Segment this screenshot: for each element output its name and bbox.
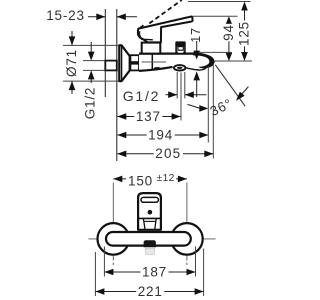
raised lever dashed line — [149, 0, 182, 23]
spout underside line — [185, 67, 207, 70]
spout shadow below bar — [145, 249, 155, 255]
aerator — [174, 65, 186, 70]
G1/2 label (horizontal) — [123, 88, 161, 104]
escutcheon flange cone — [119, 45, 129, 81]
svg-text:15-23: 15-23 — [46, 8, 85, 23]
svg-text:221: 221 — [138, 284, 163, 299]
dimension O71 flange diameter — [64, 31, 79, 94]
rear fitting plane line — [104, 9, 106, 97]
reference line lever top level — [193, 15, 238, 17]
svg-text:137: 137 — [136, 109, 161, 124]
reference line body top level — [199, 51, 232, 53]
aerator extension lines — [176, 72, 178, 99]
dimension 17 (spout drop) — [189, 27, 203, 97]
svg-text:G1/2: G1/2 — [123, 88, 161, 104]
36 degree arc arrowhead — [236, 87, 248, 101]
extension lines for 187 — [103, 247, 105, 277]
dimension 194 — [117, 127, 208, 142]
body centerline — [142, 61, 167, 63]
dimension 221 — [95, 284, 203, 299]
dimension 94 — [221, 16, 236, 61]
front view horizontal centerline right — [170, 238, 216, 240]
connection nut — [130, 55, 139, 62]
handle divider line — [139, 217, 161, 219]
right escutcheon circle — [171, 223, 203, 255]
spout beak (thick curve) — [193, 52, 215, 68]
underside screw bump — [154, 68, 160, 70]
svg-text:G1/2: G1/2 — [82, 87, 97, 119]
spout front extension line (205) — [212, 64, 214, 159]
36 degree leader arrow — [188, 104, 209, 111]
diverter knob (side view) — [175, 41, 185, 53]
lever handle — [138, 17, 193, 43]
dimension 15-23 (wall adjustment) — [46, 8, 137, 23]
svg-text:94: 94 — [221, 24, 236, 41]
svg-text:194: 194 — [148, 127, 173, 142]
handle neck lines — [143, 219, 145, 230]
reference line spout tip level — [214, 60, 252, 62]
right connection vertical centerline — [186, 183, 188, 259]
svg-text:205: 205 — [155, 146, 181, 161]
aerator width mini dimension — [166, 91, 207, 98]
svg-text:±12: ±12 — [157, 173, 175, 184]
left escutcheon circle — [98, 223, 130, 255]
G1/2 thread extension lines — [83, 60, 105, 62]
reference line raised lever top level — [188, 1, 251, 3]
spout tip extension line (194) — [207, 66, 209, 143]
body top edge — [139, 52, 196, 54]
dimension 187 — [104, 265, 195, 280]
label 36 degrees — [208, 96, 235, 119]
cartridge housing — [142, 43, 161, 54]
handle top band — [141, 197, 158, 202]
svg-text:Ø71: Ø71 — [64, 49, 79, 77]
handle dot — [148, 210, 153, 215]
diverter knob (front, dark) — [144, 240, 156, 247]
wall surface line — [116, 9, 118, 161]
left connection vertical centerline — [112, 183, 114, 259]
svg-text:17: 17 — [189, 27, 203, 43]
mixer body with spout (white fill) — [139, 54, 214, 71]
extension lines for 221 — [94, 252, 96, 296]
body bottom edge — [139, 67, 173, 71]
body bar (front) — [106, 232, 191, 246]
front view horizontal centerline left — [89, 238, 138, 240]
svg-text:150: 150 — [128, 174, 153, 189]
handle front view — [138, 193, 161, 230]
svg-text:187: 187 — [142, 265, 167, 280]
body joint line — [151, 55, 153, 70]
dimension G1/2 thread (vertical label) — [82, 42, 97, 119]
dimension 137 — [117, 109, 180, 124]
dimension 150 +-12 — [113, 173, 187, 189]
flange diameter extension lines — [63, 44, 120, 46]
wall nipple (S-connector) — [105, 61, 117, 71]
dimension 125 — [237, 2, 252, 62]
dimension 205 — [117, 146, 213, 161]
36 degree jet line — [215, 65, 245, 106]
svg-text:125: 125 — [237, 21, 252, 46]
